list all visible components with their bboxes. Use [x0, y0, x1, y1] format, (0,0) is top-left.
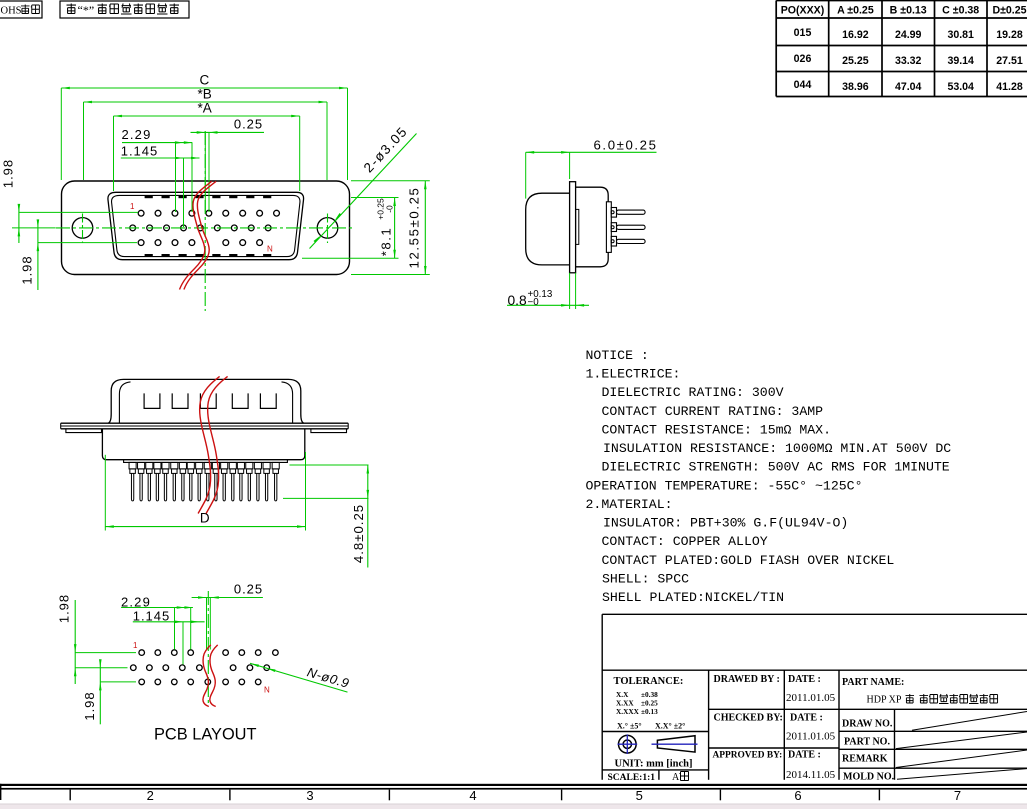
svg-text:30.81: 30.81	[947, 29, 974, 41]
svg-text:TOLERANCE:: TOLERANCE:	[614, 676, 684, 687]
side view pin 3	[611, 236, 616, 246]
svg-text:N: N	[264, 686, 270, 695]
svg-text:PCB LAYOUT: PCB LAYOUT	[154, 724, 257, 743]
side view contact carrier	[606, 202, 611, 253]
pin contacts row 1	[138, 210, 279, 216]
svg-text:27.51: 27.51	[996, 55, 1023, 67]
frame corner vertical	[0, 784, 2, 800]
side view flange	[570, 182, 576, 273]
svg-text:*8.1: *8.1	[379, 227, 394, 256]
svg-text:C: C	[200, 73, 210, 88]
svg-text:2: 2	[147, 788, 154, 803]
svg-text:INSULATOR: PBT+30% G.F(UL94V-O: INSULATOR: PBT+30% G.F(UL94V-O)	[603, 516, 848, 531]
dimension 0.8 with tolerance	[507, 304, 589, 306]
svg-text:PO(XXX): PO(XXX)	[781, 5, 825, 17]
svg-text:2011.01.05: 2011.01.05	[786, 731, 836, 743]
flange tab right	[311, 429, 347, 433]
svg-text:0.8: 0.8	[508, 293, 528, 308]
pcb dimension 1.98 upper	[74, 600, 76, 684]
svg-text:41.28: 41.28	[996, 81, 1023, 93]
svg-text:CONTACT: COPPER ALLOY: CONTACT: COPPER ALLOY	[602, 534, 768, 549]
mounting hole right	[317, 218, 338, 239]
flange tab left	[66, 429, 102, 433]
svg-text:2014.11.05: 2014.11.05	[786, 769, 836, 781]
svg-text:C ±0.38: C ±0.38	[942, 5, 979, 17]
svg-text:A: A	[672, 772, 680, 783]
svg-text:B ±0.13: B ±0.13	[890, 5, 927, 17]
svg-text:12.55±0.25: 12.55±0.25	[407, 187, 422, 269]
flange plate bottom view	[61, 422, 349, 424]
svg-text:DATE :: DATE :	[790, 713, 823, 724]
hole centerline left	[82, 214, 84, 244]
svg-text:044: 044	[794, 79, 812, 91]
svg-text:OHS: OHS	[1, 6, 22, 17]
svg-text:REMARK: REMARK	[842, 754, 888, 765]
front view D-face inner outline	[112, 195, 300, 256]
break line bottom view	[198, 376, 220, 513]
svg-text:SHELL: SPCC: SHELL: SPCC	[602, 571, 689, 586]
svg-text:19.28: 19.28	[996, 29, 1023, 41]
hole centerline right	[327, 214, 329, 244]
dimension *A	[114, 115, 300, 117]
dimension 2.29 front	[122, 142, 192, 144]
svg-text:PART NAME:: PART NAME:	[842, 677, 904, 688]
svg-text:1.ELECTRICE:: 1.ELECTRICE:	[586, 367, 681, 382]
note box ROHS	[0, 1, 42, 18]
svg-text:DRAWED BY :: DRAWED BY :	[714, 674, 780, 685]
svg-text:X.° ±5°: X.° ±5°	[617, 722, 642, 731]
svg-text:6: 6	[794, 788, 801, 803]
svg-text:6.0±0.25: 6.0±0.25	[594, 138, 658, 153]
break line front view	[180, 181, 212, 289]
svg-text:A ±0.25: A ±0.25	[837, 5, 874, 17]
svg-text:DRAW NO.: DRAW NO.	[842, 719, 893, 730]
dimension 1.145 front	[121, 157, 200, 159]
side view pin 1	[611, 208, 616, 218]
svg-text:7: 7	[954, 788, 961, 803]
svg-text:1.98: 1.98	[82, 691, 97, 720]
note box inspection dimension	[60, 1, 189, 18]
title block frame	[602, 614, 1027, 780]
svg-text:D±0.25: D±0.25	[992, 5, 1026, 17]
svg-text:24.99: 24.99	[895, 29, 922, 41]
svg-text:25.25: 25.25	[842, 55, 869, 67]
svg-text:*A: *A	[197, 101, 211, 116]
svg-text:1.145: 1.145	[133, 609, 171, 624]
dimension table	[776, 1, 1027, 97]
pcb holes row 3	[139, 679, 261, 685]
svg-text:015: 015	[794, 27, 812, 39]
centerline horizontal front view	[56, 227, 355, 229]
break line pcb view	[203, 645, 211, 707]
pcb holes row 1	[139, 650, 278, 656]
svg-text:1.98: 1.98	[20, 255, 35, 284]
bottom page edge band	[0, 803, 1027, 805]
hood slots	[144, 393, 276, 408]
svg-text:SHELL PLATED:NICKEL/TIN: SHELL PLATED:NICKEL/TIN	[602, 590, 784, 605]
dimension 2-dia3.05 leader	[310, 134, 417, 249]
svg-text:−0: −0	[528, 297, 540, 308]
svg-text:-0: -0	[385, 205, 395, 213]
pin contacts row 3	[138, 240, 262, 246]
svg-text:APPROVED BY:: APPROVED BY:	[713, 751, 783, 761]
solder pins comb	[129, 462, 279, 501]
svg-text:2.29: 2.29	[121, 127, 151, 142]
zone ticks	[70, 790, 879, 801]
svg-text:HDP XP: HDP XP	[867, 695, 902, 706]
svg-text:1: 1	[133, 641, 138, 650]
mounting hole left	[72, 218, 93, 239]
svg-text:±0.13: ±0.13	[641, 707, 658, 716]
svg-text:UNIT: mm [inch]: UNIT: mm [inch]	[615, 759, 693, 770]
side view hood	[526, 193, 570, 265]
dimension D	[105, 526, 305, 528]
pcb holes row 2	[131, 665, 270, 671]
pcb dimension 0.25	[192, 597, 263, 599]
svg-text:X.XXX: X.XXX	[616, 707, 640, 716]
dimension 1.98 lower-left	[37, 220, 39, 290]
svg-text:1: 1	[130, 202, 135, 211]
polarization dashes top edge	[145, 196, 272, 199]
svg-text:4.8±0.25: 4.8±0.25	[351, 504, 366, 563]
svg-text:DATE :: DATE :	[788, 674, 821, 685]
pcb dimension 1.145	[133, 621, 205, 623]
lower shell bottom view	[102, 429, 304, 460]
svg-text:1.98: 1.98	[57, 594, 72, 623]
drawing frame border line inner	[0, 788, 1027, 790]
svg-text:2.MATERIAL:: 2.MATERIAL:	[586, 497, 673, 512]
svg-text:D: D	[200, 511, 210, 526]
svg-text:38.96: 38.96	[842, 81, 869, 93]
svg-text:CONTACT CURRENT RATING: 3AMP: CONTACT CURRENT RATING: 3AMP	[602, 404, 824, 419]
dimension 1.98 upper-left	[18, 205, 20, 243]
svg-text:MOLD NO.: MOLD NO.	[843, 772, 895, 783]
svg-text:“*”: “*”	[78, 3, 95, 17]
projection symbol circle	[619, 735, 637, 753]
pcb centerline vertical	[207, 591, 209, 706]
dimension 4.8	[290, 464, 369, 466]
side view body	[576, 187, 609, 267]
centerline vertical front view	[204, 131, 206, 311]
svg-text:NOTICE :: NOTICE :	[586, 348, 649, 363]
svg-text:1.145: 1.145	[121, 143, 159, 158]
svg-text:2011.01.05: 2011.01.05	[786, 692, 836, 704]
svg-text:4: 4	[469, 788, 476, 803]
svg-text:16.92: 16.92	[842, 29, 869, 41]
svg-text:PART NO.: PART NO.	[844, 737, 890, 748]
front view outer shell	[62, 181, 350, 275]
svg-text:OPERATION TEMPERATURE: -55C° ~: OPERATION TEMPERATURE: -55C° ~125C°	[586, 478, 863, 493]
pcb dimension N-dia0.9 leader	[250, 663, 348, 692]
svg-text:CHECKED BY:: CHECKED BY:	[714, 713, 783, 724]
svg-text:CONTACT PLATED:GOLD FIASH OVER: CONTACT PLATED:GOLD FIASH OVER NICKEL	[602, 553, 895, 568]
bottom view hood inner right	[282, 382, 293, 423]
svg-text:DATE :: DATE :	[788, 750, 821, 761]
svg-text:2.29: 2.29	[121, 594, 151, 609]
svg-text:026: 026	[794, 53, 812, 65]
svg-text:0.25: 0.25	[234, 117, 263, 132]
svg-text:CONTACT RESISTANCE: 15mΩ MAX.: CONTACT RESISTANCE: 15mΩ MAX.	[602, 422, 832, 437]
pcb dimension 1.98 lower	[99, 661, 101, 725]
svg-text:N: N	[267, 245, 273, 254]
dimension 0.25 front	[191, 131, 265, 133]
insert base bottom view	[124, 460, 288, 463]
svg-text:INSULATION RESISTANCE: 1000MΩ: INSULATION RESISTANCE: 1000MΩ MIN.AT 500…	[603, 441, 951, 456]
drawing frame border line outer	[0, 784, 1027, 786]
polarization dashes bottom edge	[145, 254, 272, 257]
front view D-face outer outline	[108, 192, 304, 259]
pin contacts row 2	[130, 225, 271, 231]
side view pin 2	[611, 223, 616, 232]
dimension *B	[84, 101, 328, 103]
svg-text:SCALE:1:1: SCALE:1:1	[608, 773, 656, 783]
svg-text:47.04: 47.04	[895, 81, 922, 93]
projection symbol taper	[657, 736, 695, 752]
svg-text:39.14: 39.14	[947, 55, 974, 67]
svg-text:3: 3	[306, 788, 313, 803]
svg-text:1.98: 1.98	[1, 159, 16, 188]
dimension 8.1 with tolerance	[394, 198, 396, 259]
svg-text:53.04: 53.04	[947, 81, 974, 93]
svg-text:5: 5	[636, 788, 643, 803]
svg-text:0.25: 0.25	[234, 582, 263, 597]
svg-text:X.X° ±2°: X.X° ±2°	[655, 722, 685, 731]
dimension 12.55	[424, 181, 426, 275]
bottom view hood inner left	[119, 382, 130, 423]
svg-text:DIELECTRIC RATING: 300V: DIELECTRIC RATING: 300V	[602, 385, 784, 400]
empty cell diagonals	[896, 712, 1027, 780]
svg-text:*B: *B	[197, 87, 211, 102]
dimension 6.0	[526, 151, 657, 153]
svg-text:33.32: 33.32	[895, 55, 922, 67]
svg-text:DIELECTRIC STRENGTH: 500V AC R: DIELECTRIC STRENGTH: 500V AC RMS FOR 1MI…	[602, 460, 950, 475]
side view insulator edge	[576, 209, 579, 244]
pcb dimension 2.29	[121, 607, 193, 609]
bottom view hood outer	[108, 379, 303, 423]
dimension C	[61, 87, 347, 89]
